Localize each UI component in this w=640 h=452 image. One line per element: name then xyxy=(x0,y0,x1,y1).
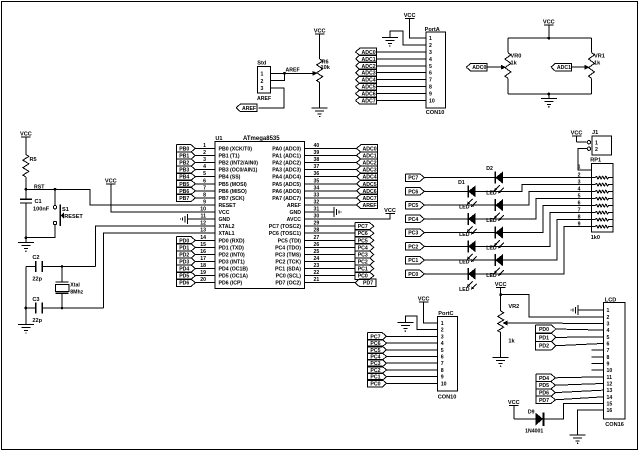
ground (VR0/VR1) xyxy=(541,98,557,107)
wire D9 to VCC xyxy=(514,418,536,420)
svg-text:9: 9 xyxy=(607,361,610,367)
wire LED D3 anode to RP1 pin4 xyxy=(503,192,592,206)
svg-text:U1: U1 xyxy=(215,136,222,142)
wire ground to PortA pin2 xyxy=(390,31,426,45)
flag PC6 (PortC) xyxy=(368,339,387,347)
connector J2 Std xyxy=(257,61,271,103)
svg-text:C1: C1 xyxy=(35,199,42,205)
label ATmega8535 xyxy=(243,136,280,142)
flag PC5 (U1) xyxy=(355,237,374,245)
wire VCC to PortA pin1 xyxy=(410,18,426,38)
jumper J1 xyxy=(587,130,611,155)
wire PD0 flag to LCD pin4 xyxy=(556,329,604,330)
wire PD5 flag to LCD pin12 xyxy=(555,383,603,385)
wire Std pin3 to AREF flag xyxy=(258,88,284,108)
wire ADC4 to PortA pin7 xyxy=(377,79,427,81)
wire LCD pin2 to VCC rail xyxy=(501,295,604,317)
svg-text:PD7: PD7 xyxy=(363,281,373,287)
wire PB2 to U1 pin3 xyxy=(196,162,215,164)
svg-text:8Mhz: 8Mhz xyxy=(70,290,83,296)
svg-text:7: 7 xyxy=(607,348,610,354)
svg-text:3: 3 xyxy=(429,50,432,56)
svg-text:PC4 (TDO): PC4 (TDO) xyxy=(275,245,301,251)
ground (PortC) xyxy=(397,323,413,332)
wire PC2 to PortC pin8 xyxy=(386,369,438,371)
wire U1 pin31 to ground xyxy=(305,211,335,213)
connector PortA CON10 xyxy=(425,27,446,116)
svg-text:5: 5 xyxy=(578,193,581,199)
svg-text:PA1 (ADC1): PA1 (ADC1) xyxy=(272,153,301,159)
junction (S1 return) xyxy=(25,236,28,239)
wire PD6 to U1 pin20 xyxy=(196,282,215,284)
svg-text:6: 6 xyxy=(607,341,610,347)
wire C3 to XTAL1 riser xyxy=(43,307,104,309)
flag ADC4 (PortA) xyxy=(356,76,377,84)
wire ADC6 to PortA pin9 xyxy=(377,93,427,95)
wire R6 to ground xyxy=(319,83,321,109)
svg-text:PD6: PD6 xyxy=(179,281,189,287)
svg-text:10: 10 xyxy=(441,381,447,387)
wire XTAL1 rail (bottom) xyxy=(26,307,35,309)
flag PB5 xyxy=(177,180,196,188)
svg-text:2: 2 xyxy=(441,328,444,334)
svg-text:PC0: PC0 xyxy=(408,272,418,278)
wire PB1 to U1 pin2 xyxy=(196,154,215,156)
svg-text:PA3 (ADC3): PA3 (ADC3) xyxy=(272,168,301,174)
svg-text:AREF: AREF xyxy=(362,203,376,209)
wire PD0 to U1 pin14 xyxy=(196,239,215,241)
svg-text:PD7 (OC2): PD7 (OC2) xyxy=(275,281,301,287)
diode D9 1N4001 xyxy=(525,410,543,435)
svg-text:22p: 22p xyxy=(32,318,42,324)
svg-text:3: 3 xyxy=(607,321,610,327)
wire crystal top stem xyxy=(61,267,63,283)
svg-text:PC1 (SDA): PC1 (SDA) xyxy=(275,267,301,273)
svg-text:D2: D2 xyxy=(486,166,493,172)
crystal X1 8MHz xyxy=(55,282,83,296)
svg-text:PA7 (ADC7): PA7 (ADC7) xyxy=(272,196,301,202)
wire PB4 to U1 pin5 xyxy=(196,176,215,178)
svg-text:VR2: VR2 xyxy=(508,304,519,310)
flag PB3 xyxy=(177,166,196,174)
flag PD2 xyxy=(177,251,196,259)
flag PC4 (LED row) xyxy=(406,215,425,223)
wire ADC0 flag to VR0 wiper xyxy=(487,66,501,68)
svg-text:PD5: PD5 xyxy=(539,383,549,389)
svg-text:1: 1 xyxy=(429,36,432,42)
wire U1 pin28 to PC6 flag xyxy=(305,232,356,234)
connector LCD CON16 xyxy=(604,297,626,428)
ground (VR2) xyxy=(493,358,509,367)
svg-text:PD2 (INT0): PD2 (INT0) xyxy=(219,252,246,258)
svg-text:PD5 (OC1A): PD5 (OC1A) xyxy=(219,274,249,280)
flag PC6 (LED row) xyxy=(406,188,425,196)
wire LCD pin15 to D9 xyxy=(544,403,604,418)
wire VCC to R6 xyxy=(319,34,321,59)
svg-text:VR0: VR0 xyxy=(511,54,522,60)
wire U1 pin24 to PC2 flag xyxy=(305,261,356,263)
svg-text:XTAL2: XTAL2 xyxy=(219,224,235,230)
ground (crystal caps) xyxy=(18,325,34,334)
capacitor C3 plates xyxy=(36,303,43,314)
wire PC1 flag to LED D7 xyxy=(424,259,496,261)
pot VR0 wiper arrow xyxy=(501,65,506,70)
svg-text:D1: D1 xyxy=(458,180,465,186)
svg-text:PD7: PD7 xyxy=(539,398,549,404)
svg-text:PA2 (ADC2): PA2 (ADC2) xyxy=(272,161,301,167)
svg-text:4: 4 xyxy=(607,328,610,334)
wire PB0 to U1 pin1 xyxy=(196,147,215,149)
wire U1 pin39 to ADC1 flag xyxy=(305,154,357,156)
wire ADC1 flag to VR1 wiper xyxy=(572,66,585,68)
flag PD4 (LCD) xyxy=(536,374,556,382)
label U1 xyxy=(215,136,222,142)
svg-text:PB0 (XCK/T0): PB0 (XCK/T0) xyxy=(219,146,253,152)
wire ADC7 to PortA pin10 xyxy=(377,100,427,102)
label LED (D7) xyxy=(486,273,497,279)
wire PC2 flag to LED D6 xyxy=(424,245,468,247)
flag PC3 (PortC) xyxy=(368,360,387,368)
svg-text:CON10: CON10 xyxy=(426,110,445,116)
led D5 xyxy=(494,227,504,249)
svg-text:13: 13 xyxy=(607,388,613,394)
wire PB5 to U1 pin6 xyxy=(196,183,215,185)
power VCC (VR2) xyxy=(495,282,507,288)
capacitor C1 plates xyxy=(20,199,32,203)
svg-text:ADC1: ADC1 xyxy=(557,65,571,71)
svg-text:PD6 (ICP): PD6 (ICP) xyxy=(219,281,243,287)
flag PC5 (LED row) xyxy=(406,201,425,209)
wire PD7 flag to LCD pin14 xyxy=(555,397,603,400)
wire LCD pin7 stub xyxy=(591,349,603,351)
value 100nF (C1) xyxy=(33,207,50,213)
wire PC0 to PortC pin10 xyxy=(386,382,438,384)
svg-text:100nF: 100nF xyxy=(33,207,50,213)
svg-text:2: 2 xyxy=(578,172,581,178)
label VR2 xyxy=(508,304,519,310)
wire LED D6 anode to RP1 pin7 xyxy=(476,213,592,247)
svg-text:7: 7 xyxy=(441,361,444,367)
svg-text:11: 11 xyxy=(607,375,613,381)
svg-text:9: 9 xyxy=(578,221,581,227)
resistor pot VR1 body xyxy=(589,53,595,79)
svg-text:PC1: PC1 xyxy=(408,258,418,264)
wire ground to PortC pin2 xyxy=(405,316,437,330)
flag ADC2 (PortA) xyxy=(356,62,377,70)
label net RST xyxy=(34,185,45,191)
svg-text:CON16: CON16 xyxy=(605,422,624,428)
flag PC7 (U1) xyxy=(355,222,374,230)
wire U1 pin36 to ADC4 flag xyxy=(305,176,357,178)
led D1 xyxy=(494,172,504,194)
wire U1 pin23 to PC1 flag xyxy=(305,268,356,270)
wire top rail to VR0 xyxy=(507,38,509,53)
led D7 xyxy=(494,254,504,276)
svg-text:5: 5 xyxy=(429,64,432,70)
ground (R6) xyxy=(312,108,328,117)
svg-text:7: 7 xyxy=(429,78,432,84)
flag PD5 xyxy=(177,272,196,280)
wire PC3 flag to LED D5 xyxy=(424,232,496,234)
pot VR1 wiper arrow xyxy=(584,65,589,70)
svg-text:AVCC: AVCC xyxy=(287,217,302,223)
wire Std pin2 riser xyxy=(271,73,285,80)
svg-text:4: 4 xyxy=(441,341,444,347)
wire VCC to J1 pin1 xyxy=(576,136,578,142)
svg-text:PA5 (ADC5): PA5 (ADC5) xyxy=(272,182,301,188)
svg-text:2: 2 xyxy=(261,79,264,85)
svg-text:C2: C2 xyxy=(32,255,39,261)
wire LED D2 anode to RP1 pin3 xyxy=(476,185,592,192)
flag ADC6 (U1) xyxy=(357,187,378,195)
svg-text:XTAL1: XTAL1 xyxy=(219,231,235,237)
flag ADC0 (VR0 wiper) xyxy=(466,64,487,72)
wire U1 pin34 to ADC6 flag xyxy=(305,190,357,192)
wire top rail VR0-VR1 xyxy=(508,37,592,39)
wire PD6 flag to LCD pin13 xyxy=(555,390,603,392)
svg-text:1k0: 1k0 xyxy=(591,235,600,241)
flag PC6 (U1) xyxy=(355,230,374,238)
flag PC3 (LED row) xyxy=(406,229,425,237)
flag PB4 xyxy=(177,173,196,181)
label R6 xyxy=(322,60,329,66)
svg-text:PB2 (INT2/AIN0): PB2 (INT2/AIN0) xyxy=(219,161,259,167)
wire PC6 to PortC pin4 xyxy=(386,342,438,344)
flag PD2 (LCD) xyxy=(536,342,556,350)
flag ADC6 (PortA) xyxy=(356,90,377,98)
value 1k (VR1) xyxy=(594,61,601,67)
label LED (D1) xyxy=(486,191,497,197)
wire LCD pin8 stub xyxy=(591,356,603,358)
wire LED D7 anode to RP1 pin8 xyxy=(503,220,592,261)
svg-text:9: 9 xyxy=(429,92,432,98)
svg-text:PC3: PC3 xyxy=(408,231,418,237)
value 10k (R6) xyxy=(321,65,331,71)
wire VR2 to ground xyxy=(500,333,502,358)
svg-text:15: 15 xyxy=(607,401,613,407)
label LED (D5) xyxy=(486,246,497,252)
wire RST to U1 pin9 xyxy=(26,189,215,205)
svg-text:4: 4 xyxy=(429,57,432,63)
flag PD1 xyxy=(177,244,196,252)
resistor network RP1 xyxy=(590,158,613,242)
svg-text:5: 5 xyxy=(607,335,610,341)
wire VCC stem (VR0/VR1) xyxy=(548,25,550,38)
wire PC3 to PortC pin7 xyxy=(386,362,438,364)
wire top rail to VR1 xyxy=(591,38,593,53)
svg-text:PD3 (INT1): PD3 (INT1) xyxy=(219,260,246,266)
svg-text:LED: LED xyxy=(459,287,470,293)
label LED (D8) xyxy=(459,287,470,293)
flag PB0 xyxy=(177,145,196,153)
flag ADC1 (PortA) xyxy=(356,55,377,63)
label C1 xyxy=(35,199,42,205)
svg-text:PC3 (TMS): PC3 (TMS) xyxy=(275,252,301,258)
flag PD0 xyxy=(177,237,196,245)
svg-text:Std: Std xyxy=(257,61,267,67)
wire U1 pin13 XTAL1 to crystal bottom xyxy=(104,233,215,308)
flag ADC1 (VR1 wiper) xyxy=(551,64,572,72)
svg-text:3: 3 xyxy=(441,334,444,340)
wire PD2 flag to LCD pin6 xyxy=(556,343,604,345)
wire LED D1 anode to RP1 pin2 xyxy=(503,177,592,179)
svg-text:J1: J1 xyxy=(592,130,598,136)
svg-text:PC4: PC4 xyxy=(408,217,418,223)
wire ADC5 to PortA pin8 xyxy=(377,86,427,88)
wire PC4 flag to LED D4 xyxy=(424,218,468,220)
led D3 xyxy=(494,199,504,221)
label VR1 xyxy=(594,54,605,60)
svg-text:PB4 (SS): PB4 (SS) xyxy=(219,175,241,181)
wire LCD pin1 to ground xyxy=(578,309,603,311)
wire VR1 to bottom rail xyxy=(591,78,593,94)
svg-text:PD0 (RXD): PD0 (RXD) xyxy=(219,238,245,244)
svg-text:GND: GND xyxy=(289,210,301,216)
wire PC1 to PortC pin9 xyxy=(386,376,438,378)
svg-text:7: 7 xyxy=(578,207,581,213)
flag PC5 (PortC) xyxy=(368,346,387,354)
junction (C3 ground rail) xyxy=(25,307,28,310)
flag PD6 xyxy=(177,279,196,287)
wire U1 pin35 to ADC5 flag xyxy=(305,183,357,185)
svg-text:8: 8 xyxy=(441,368,444,374)
wire PD4 flag to LCD pin11 xyxy=(555,377,603,378)
value 1k (VR2) xyxy=(508,338,515,344)
flag PD7 (LCD) xyxy=(536,396,556,404)
svg-text:1: 1 xyxy=(261,72,264,78)
wire ADC0 to PortA pin3 xyxy=(377,51,427,53)
pot VR2 wiper arrow xyxy=(503,321,508,326)
RP1 pin numbers xyxy=(578,165,581,228)
ground (U1 pin11) xyxy=(180,214,188,224)
svg-text:14: 14 xyxy=(607,395,613,401)
junction (VCC/top rail) xyxy=(547,37,550,40)
svg-text:10k: 10k xyxy=(321,65,331,71)
svg-text:PB6 (MISO): PB6 (MISO) xyxy=(219,189,248,195)
wire U1 pin38 to ADC2 flag xyxy=(305,162,357,164)
wire C1 to ground xyxy=(25,203,27,243)
wire RST to C1 xyxy=(25,189,27,199)
flag PC1 (U1) xyxy=(355,265,374,273)
svg-text:LCD: LCD xyxy=(605,297,617,303)
junction (RST node) xyxy=(25,188,28,191)
label C2 xyxy=(32,255,39,261)
flag PD6 (LCD) xyxy=(536,389,556,397)
wire S1 to ground xyxy=(26,225,55,238)
wire RST to S1 xyxy=(54,189,56,205)
capacitor C2 plates xyxy=(36,261,43,272)
power VCC (PortA) xyxy=(404,13,416,19)
wire U1 pin22 to PC0 flag xyxy=(305,275,356,277)
svg-text:5: 5 xyxy=(441,348,444,354)
svg-text:1: 1 xyxy=(578,165,581,171)
wire VR0 to bottom rail xyxy=(507,78,509,94)
flag PC1 (LED row) xyxy=(406,256,425,264)
wire PB6 to U1 pin7 xyxy=(196,190,215,192)
wire PC5 flag to LED D3 xyxy=(424,204,496,206)
led D4 xyxy=(467,213,477,235)
label C3 xyxy=(32,297,39,303)
svg-text:22p: 22p xyxy=(32,277,42,283)
wire PD1 flag to LCD pin5 xyxy=(556,336,604,339)
svg-text:RP1: RP1 xyxy=(590,158,601,164)
power VCC (PortC) xyxy=(418,297,430,303)
wire U1 pin32 to AREF flag xyxy=(305,204,357,206)
ground (PortA) xyxy=(382,38,398,47)
resistor R5 body xyxy=(23,155,29,178)
value 22p (C3) xyxy=(32,318,42,324)
junction (crystal top) xyxy=(61,265,64,268)
flag PB1 xyxy=(177,152,196,160)
label net AREF (wire) xyxy=(286,68,300,74)
resistor pot VR2 body xyxy=(498,311,504,333)
switch S1 RESET xyxy=(53,205,83,226)
svg-text:10: 10 xyxy=(429,99,435,105)
svg-text:2: 2 xyxy=(607,315,610,321)
flag ADC2 (U1) xyxy=(357,159,378,167)
svg-text:2: 2 xyxy=(595,147,598,153)
wire VCC to U1 pin10 xyxy=(111,184,215,212)
svg-text:PC5 (TDI): PC5 (TDI) xyxy=(278,238,302,244)
wire PD2 to U1 pin16 xyxy=(196,253,215,255)
flag PB6 xyxy=(177,187,196,195)
svg-text:R5: R5 xyxy=(30,157,37,163)
flag ADC5 (PortA) xyxy=(356,83,377,91)
wire LED D5 anode to RP1 pin6 xyxy=(503,206,592,233)
svg-text:3: 3 xyxy=(578,179,581,185)
svg-text:PD1 (TXD): PD1 (TXD) xyxy=(219,245,245,251)
svg-text:4: 4 xyxy=(578,186,581,192)
wire ADC1 to PortA pin4 xyxy=(377,58,427,60)
wire ADC2 to PortA pin5 xyxy=(377,65,427,67)
label LED (D2) xyxy=(459,204,470,210)
junction (crystal bottom) xyxy=(61,307,64,310)
wire PB3 to U1 pin4 xyxy=(196,169,215,171)
flag ADC5 (U1) xyxy=(357,180,378,188)
connector PortC CON10 xyxy=(438,311,458,400)
flag ADC3 (PortA) xyxy=(356,69,377,77)
svg-text:ADC0: ADC0 xyxy=(472,65,486,71)
value 1k (VR0) xyxy=(511,61,518,67)
flag PC4 (U1) xyxy=(355,244,374,252)
wire U1 pin11 to ground xyxy=(188,218,216,220)
ground (C1/S1) xyxy=(18,243,34,252)
wire U1 pin33 to ADC7 flag xyxy=(305,197,357,199)
svg-text:PD1: PD1 xyxy=(539,335,549,341)
wire PD4 to U1 pin18 xyxy=(196,268,215,270)
svg-text:PC6: PC6 xyxy=(408,189,418,195)
power VCC (VR0/VR1) xyxy=(543,19,555,25)
svg-text:D9: D9 xyxy=(528,410,535,416)
flag PD7 (U1) xyxy=(355,279,376,287)
flag PC0 (LED row) xyxy=(406,270,425,278)
wire U1 pin29 to PC7 flag xyxy=(305,225,356,227)
flag PD4 xyxy=(177,265,196,273)
svg-text:PC7 (TOSC2): PC7 (TOSC2) xyxy=(269,224,301,230)
flag AREF (top-left) xyxy=(236,104,257,112)
power VCC (U1 pin10) xyxy=(105,179,117,185)
led D8 xyxy=(467,268,477,290)
flag ADC0 (U1) xyxy=(357,145,378,153)
svg-text:6: 6 xyxy=(441,355,444,361)
flag PC1 (PortC) xyxy=(368,373,387,381)
svg-text:12: 12 xyxy=(607,381,613,387)
flag PB7 xyxy=(177,194,196,202)
flag PD1 (LCD) xyxy=(536,333,556,341)
svg-text:PC0: PC0 xyxy=(370,381,380,387)
wire U1 pin40 to ADC0 flag xyxy=(305,147,357,149)
svg-text:PB7: PB7 xyxy=(179,196,189,202)
